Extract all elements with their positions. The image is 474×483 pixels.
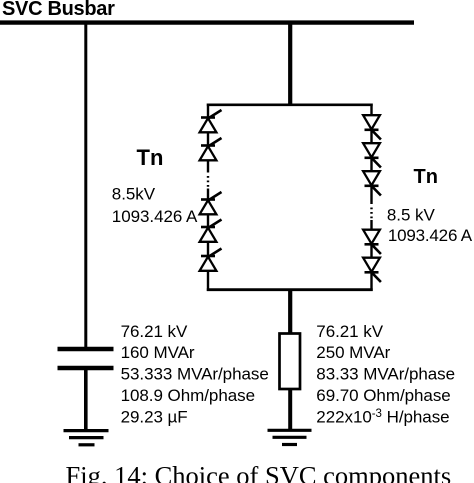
thyristor T5 (left stack) bbox=[200, 249, 222, 271]
wire between T7 and T8 (right) bbox=[370, 158, 372, 172]
wire below T8 (right) bbox=[370, 186, 372, 204]
wire: busbar down to thyristor valve (middle branch) bbox=[288, 24, 292, 106]
svg-text:76.21 kV: 76.21 kV bbox=[316, 322, 383, 341]
svg-text:1093.426 A: 1093.426 A bbox=[112, 207, 198, 226]
wire above T3 (left) bbox=[207, 189, 209, 200]
wire below T2 (left) bbox=[207, 160, 209, 173]
svg-text:76.21 kV: 76.21 kV bbox=[121, 322, 188, 341]
wire: right stack top segment bbox=[370, 104, 372, 116]
wire: valve top rail bbox=[207, 104, 373, 107]
wire: reactor to ground bbox=[288, 389, 292, 430]
svg-text:108.9 Ohm/phase: 108.9 Ohm/phase bbox=[121, 386, 255, 405]
wire above T9 (right) bbox=[370, 220, 372, 230]
svg-text:222x10-3 H/phase: 222x10-3 H/phase bbox=[316, 407, 449, 426]
wire: valve bottom rail bbox=[207, 288, 373, 291]
wire: valve to reactor bbox=[288, 290, 292, 334]
svg-text:Fig. 14: Choice of SVC compone: Fig. 14: Choice of SVC components bbox=[66, 460, 452, 483]
wire: left stack bottom segment bbox=[207, 271, 209, 292]
svg-text:160 MVAr: 160 MVAr bbox=[121, 343, 195, 362]
thyristor T8 (right stack) bbox=[363, 171, 381, 195]
ground (TCR branch) bbox=[268, 430, 312, 444]
wire: capacitor to ground bbox=[84, 369, 88, 430]
wire between T6 and T7 (right) bbox=[370, 130, 372, 144]
svg-text:1093.426 A: 1093.426 A bbox=[388, 226, 473, 245]
thyristor T10 (right stack) bbox=[363, 258, 381, 282]
thyristor T9 (right stack) bbox=[363, 230, 381, 254]
wire between T3 and T4 (left) bbox=[207, 214, 209, 227]
thyristor T3 (left stack) bbox=[200, 192, 222, 214]
wire: left stack top segment bbox=[207, 104, 209, 119]
svg-text:69.70 Ohm/phase: 69.70 Ohm/phase bbox=[316, 386, 450, 405]
wire between T1 and T2 (left) bbox=[207, 132, 209, 146]
svg-text:8.5 kV: 8.5 kV bbox=[387, 205, 436, 224]
wire between T9 and T10 (right) bbox=[370, 244, 372, 258]
thyristor T7 (right stack) bbox=[363, 143, 381, 167]
wire: busbar down to capacitor bank (left branch) bbox=[84, 24, 87, 348]
SVC busbar bbox=[0, 20, 414, 24]
svg-text:8.5kV: 8.5kV bbox=[112, 185, 156, 204]
thyristor T4 (left stack) bbox=[200, 220, 222, 242]
svg-text:83.33 MVAr/phase: 83.33 MVAr/phase bbox=[316, 365, 455, 384]
svg-text:29.23 µF: 29.23 µF bbox=[121, 407, 188, 426]
svg-text:Tn: Tn bbox=[414, 166, 438, 188]
svg-text:SVC Busbar: SVC Busbar bbox=[2, 0, 115, 20]
svg-text:53.333 MVAr/phase: 53.333 MVAr/phase bbox=[121, 365, 269, 384]
thyristor T2 (left stack) bbox=[200, 138, 222, 160]
wire between T4 and T5 (left) bbox=[207, 242, 209, 257]
wire: right stack bottom segment bbox=[370, 272, 372, 291]
reactor (TCR branch) rectangle body bbox=[280, 334, 301, 390]
dotted continuation (right stack) bbox=[370, 208, 372, 220]
ground (capacitor branch) bbox=[64, 431, 109, 445]
svg-text:Tn: Tn bbox=[137, 145, 164, 170]
capacitor C (fixed capacitor bank) bbox=[58, 349, 114, 368]
thyristor T6 (right stack, conducting down) bbox=[363, 115, 381, 139]
thyristor T1 (left stack, conducting up) bbox=[200, 110, 222, 132]
svg-text:250 MVAr: 250 MVAr bbox=[316, 343, 390, 362]
dotted continuation (left stack) bbox=[207, 176, 209, 188]
